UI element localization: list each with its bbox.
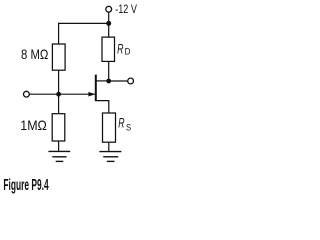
wire drain to output	[109, 80, 128, 82]
svg-text:S: S	[126, 122, 131, 133]
node drain junction	[106, 79, 111, 84]
svg-text:1MΩ: 1MΩ	[20, 118, 47, 134]
ground left	[48, 151, 70, 161]
svg-text:-12 V: -12 V	[115, 3, 137, 17]
terminal input	[24, 91, 30, 97]
wire 1M to ground	[58, 141, 60, 151]
terminal -12V supply	[106, 6, 112, 12]
resistor 8M box	[52, 44, 65, 70]
transistor Q1 source lead	[96, 101, 109, 113]
ground right	[99, 152, 121, 162]
wire RS to ground	[108, 142, 110, 151]
wire input to gate	[29, 93, 95, 95]
resistor 1M box	[52, 114, 65, 141]
transistor Q1 drain lead	[96, 80, 109, 82]
transistor Q1 gate arrow	[88, 92, 95, 97]
label 1 MOhm	[20, 118, 47, 134]
svg-text:R: R	[117, 41, 124, 57]
terminal output	[128, 78, 134, 84]
node gate junction	[56, 92, 61, 97]
label -12 V	[115, 3, 137, 17]
caption Figure P9.4	[3, 177, 48, 194]
resistor RS box	[103, 113, 116, 142]
wire left branch down to 8M	[58, 23, 60, 44]
wire 8M bottom to gate node	[58, 70, 60, 114]
label RS	[118, 116, 125, 132]
wire supply junction to RD	[108, 23, 110, 37]
wire RD bottom to drain node	[108, 61, 110, 81]
label 8 MOhm	[21, 47, 48, 62]
resistor RD box	[102, 37, 115, 61]
transistor Q1 channel bar	[95, 75, 97, 102]
svg-text:8 MΩ: 8 MΩ	[21, 47, 48, 62]
label RD	[117, 41, 124, 57]
wire supply stub	[108, 12, 110, 23]
svg-text:R: R	[118, 116, 125, 132]
node supply junction	[106, 21, 111, 26]
svg-text:D: D	[125, 46, 131, 57]
svg-text:Figure P9.4: Figure P9.4	[3, 177, 48, 194]
wire top horizontal	[58, 22, 109, 24]
